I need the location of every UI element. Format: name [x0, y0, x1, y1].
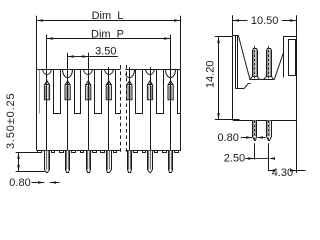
- svg-text:Dim P: Dim P: [91, 28, 124, 40]
- svg-text:2.50: 2.50: [224, 152, 245, 164]
- svg-text:14.20: 14.20: [204, 61, 216, 89]
- svg-text:0.80: 0.80: [9, 177, 30, 189]
- svg-text:0.80: 0.80: [217, 132, 238, 144]
- svg-text:Dim L: Dim L: [92, 10, 124, 22]
- svg-text:10.50: 10.50: [251, 15, 279, 27]
- svg-text:3.50: 3.50: [95, 46, 116, 58]
- svg-text:4.30: 4.30: [272, 167, 293, 179]
- svg-text:3.50±0.25: 3.50±0.25: [5, 93, 17, 150]
